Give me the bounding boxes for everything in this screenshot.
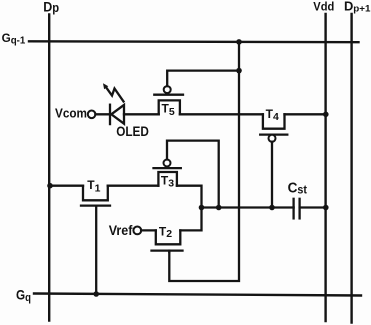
wire Vref to T2 source <box>141 229 156 231</box>
transistor T4 (p-type, valley down) <box>260 114 287 142</box>
node junction dot T3 drain / T2 drain <box>199 205 205 211</box>
wire T1 gate down to Gq <box>95 206 97 294</box>
node junction dot T1 gate on Gq <box>93 291 99 297</box>
transistor T3 (p-type, bump up) <box>154 160 181 186</box>
wire T2 drain up to storage node <box>180 208 201 231</box>
node junction dot T3 gate <box>216 205 222 211</box>
wire Vcom to OLED cathode <box>95 113 110 115</box>
transistor T1 (n-type, valley down) <box>81 186 110 206</box>
wire T2 gate stub <box>168 251 170 252</box>
wire Cst right plate to Vdd <box>300 206 327 208</box>
node junction dot Dp to T1 <box>47 183 53 189</box>
svg-text:Vref: Vref <box>109 222 133 238</box>
wire T4 gate down to storage node <box>271 142 273 208</box>
wire long vertical from Gq-1 down to T2 gate loop <box>169 42 239 281</box>
wire data line Dp (column) <box>48 15 50 321</box>
wire data line Dp+1 (column) <box>350 14 352 323</box>
wire T3 drain right and down to storage node <box>177 186 202 208</box>
wire storage node row <box>202 206 294 208</box>
wire T3 gate up right and down to storage node <box>167 141 219 208</box>
wire power line Vdd (column) <box>324 14 326 321</box>
svg-text:OLED: OLED <box>116 124 149 139</box>
svg-text:Dp: Dp <box>43 0 59 15</box>
svg-text:Vdd: Vdd <box>313 0 334 13</box>
wire T5 gate up and right to long vertical <box>167 71 239 87</box>
OLED diode D1 <box>110 105 124 124</box>
node junction dot Cst on Vdd <box>323 205 329 211</box>
transistor T5 (p-type, bump up) <box>154 86 183 114</box>
node junction dot T4 drain on Vdd <box>323 112 329 118</box>
wire T5 drain to T4 source (crosses long vertical, no dot) <box>180 113 263 115</box>
wire T4 drain to Vdd <box>285 113 327 115</box>
node junction dot T4 gate <box>269 205 275 211</box>
wire OLED anode to T5 source <box>124 113 159 115</box>
transistor T2 (n-type, valley down) <box>152 230 183 250</box>
wire Dp to T1 source <box>50 185 83 187</box>
wire scan line Gq-1 (row) <box>29 40 359 43</box>
node junction dot on Gq-1 <box>236 39 242 45</box>
OLED emission arrow <box>103 83 124 101</box>
node junction dot T5 gate tee <box>236 68 242 74</box>
svg-text:Vcom: Vcom <box>55 105 87 120</box>
capacitor Cst <box>294 199 300 219</box>
wire T1 drain to T3 source <box>108 185 159 187</box>
wire scan line Gq (row) <box>34 294 361 296</box>
